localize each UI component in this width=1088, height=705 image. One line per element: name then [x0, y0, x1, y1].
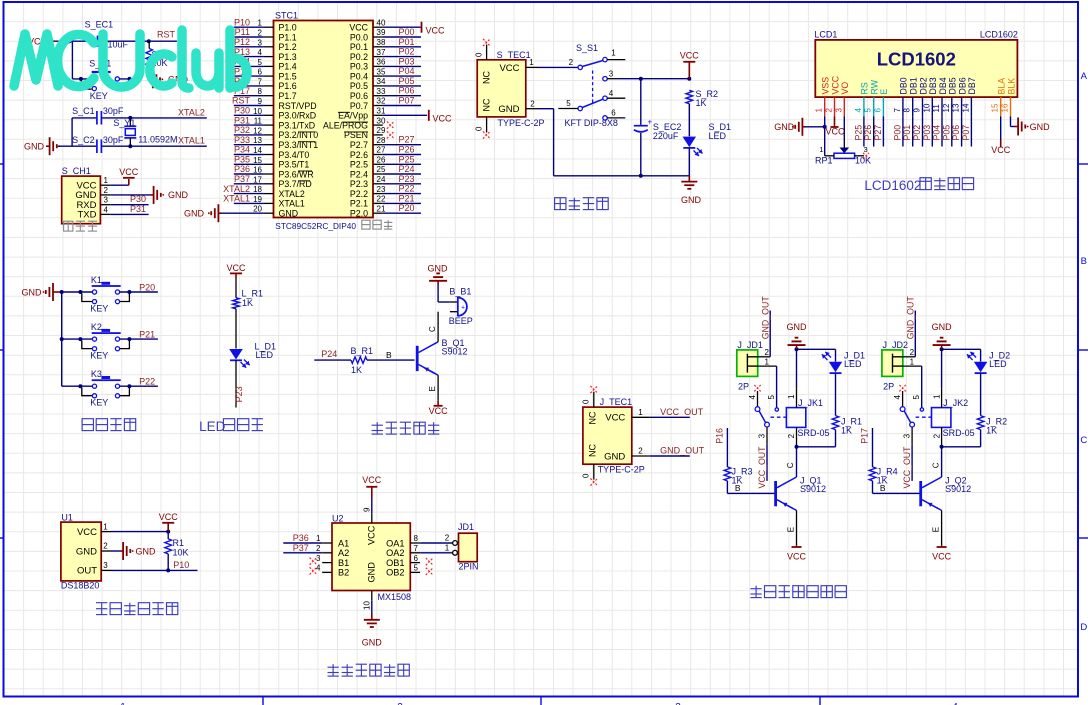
- svg-text:8: 8: [258, 87, 263, 96]
- svg-text:P1.6: P1.6: [279, 81, 297, 91]
- svg-text:S_C2: S_C2: [72, 135, 95, 145]
- svg-text:19: 19: [253, 195, 262, 204]
- svg-text:VCC_OUT: VCC_OUT: [902, 446, 912, 489]
- svg-text:P0.6: P0.6: [350, 91, 368, 101]
- svg-text:P21: P21: [139, 330, 155, 340]
- svg-text:P37: P37: [293, 543, 309, 553]
- svg-text:P05: P05: [399, 76, 415, 86]
- svg-text:P20: P20: [139, 282, 155, 292]
- svg-text:B: B: [735, 483, 741, 493]
- svg-text:6: 6: [414, 554, 419, 563]
- svg-text:16: 16: [253, 166, 262, 175]
- svg-text:+: +: [648, 118, 653, 127]
- svg-text:220uF: 220uF: [653, 131, 679, 141]
- svg-text:E: E: [787, 527, 796, 532]
- svg-text:P26: P26: [863, 125, 873, 141]
- svg-text:S_C1: S_C1: [72, 106, 95, 116]
- svg-text:DB3: DB3: [928, 77, 938, 94]
- svg-text:P27: P27: [399, 135, 415, 145]
- svg-text:P25: P25: [399, 154, 415, 164]
- svg-text:P07: P07: [961, 125, 971, 141]
- svg-text:2: 2: [445, 534, 450, 543]
- svg-text:KEY: KEY: [90, 91, 108, 101]
- power flag VCC (LCD pin2): [825, 116, 845, 136]
- svg-text:7: 7: [258, 77, 263, 86]
- svg-text:J_JD1: J_JD1: [737, 340, 763, 350]
- svg-text:P03: P03: [922, 125, 932, 141]
- svg-text:20: 20: [253, 205, 262, 214]
- svg-text:P31: P31: [130, 204, 146, 214]
- relay J_JK1 SRD-05: [786, 349, 829, 449]
- svg-text:11: 11: [932, 104, 941, 113]
- relay switch contact: [748, 385, 787, 481]
- ground (key circuit): [22, 283, 62, 301]
- LCD1 LCD1602 module: [814, 30, 1018, 98]
- svg-text:U2: U2: [332, 514, 344, 524]
- svg-text:7: 7: [893, 108, 902, 113]
- wire XTAL2: [101, 116, 206, 120]
- svg-text:VCC: VCC: [825, 127, 845, 137]
- transistor J_Q2 S9012: [919, 447, 971, 546]
- svg-text:S_TEC1: S_TEC1: [497, 50, 531, 60]
- svg-text:P2.0: P2.0: [350, 209, 368, 219]
- svg-text:P24: P24: [321, 349, 337, 359]
- relay J_JK2 SRD-05: [932, 349, 975, 449]
- svg-text:OA2: OA2: [386, 548, 404, 558]
- svg-text:VCC: VCC: [367, 525, 377, 545]
- wire VCC to RST node: [55, 40, 177, 42]
- svg-text:3: 3: [903, 433, 912, 438]
- svg-text:13: 13: [952, 103, 961, 112]
- power flag VCC (DS18B20): [111, 512, 178, 534]
- svg-text:14: 14: [253, 146, 262, 155]
- svg-text:P33: P33: [234, 135, 250, 145]
- svg-text:LED: LED: [989, 359, 1007, 369]
- svg-text:KFT DIP-8X8: KFT DIP-8X8: [565, 118, 618, 128]
- svg-text:2: 2: [932, 433, 941, 438]
- svg-text:7: 7: [414, 544, 419, 553]
- overlines on pin names: [298, 112, 368, 181]
- ground (crystal): [24, 137, 60, 155]
- switch S_S1 KFT DIP-8X8: [558, 43, 625, 128]
- svg-text:C: C: [931, 462, 940, 468]
- svg-text:2: 2: [910, 348, 915, 357]
- svg-text:E: E: [879, 89, 889, 95]
- svg-text:LED: LED: [199, 419, 226, 434]
- STC1 right net wires P00-P07: [383, 27, 421, 106]
- svg-text:31: 31: [377, 107, 386, 116]
- svg-text:P25: P25: [853, 125, 863, 141]
- capacitor S_C1 30pF: [72, 106, 124, 125]
- svg-text:1: 1: [819, 145, 823, 154]
- svg-text:OA1: OA1: [386, 538, 404, 548]
- net label XTAL2: [178, 108, 205, 118]
- svg-text:C: C: [428, 326, 437, 332]
- svg-text:P0.1: P0.1: [350, 42, 368, 52]
- title DC motor circuit: [328, 664, 410, 676]
- MCU U STC1 STC89C52RC_DIP40: [274, 11, 393, 232]
- svg-text:JD1: JD1: [458, 522, 474, 532]
- svg-text:5: 5: [566, 99, 571, 108]
- svg-text:B2: B2: [338, 568, 349, 578]
- svg-text:VCC: VCC: [932, 552, 952, 562]
- svg-text:VCC_OUT: VCC_OUT: [660, 407, 704, 417]
- potentiometer RP1 10K: [815, 116, 871, 165]
- svg-text:P16: P16: [715, 428, 725, 444]
- svg-text:5: 5: [767, 395, 776, 400]
- svg-text:10: 10: [922, 103, 931, 112]
- wire J_JD1 pin1 to switch pin5: [758, 358, 777, 408]
- svg-text:TYPE-C-2P: TYPE-C-2P: [498, 118, 545, 128]
- svg-text:S9012: S9012: [442, 346, 468, 356]
- LCD data/control wires: [853, 116, 971, 146]
- svg-text:RST: RST: [157, 29, 176, 39]
- svg-text:GND: GND: [76, 546, 97, 557]
- svg-text:XTAL2: XTAL2: [279, 189, 305, 199]
- svg-text:S_EC1: S_EC1: [85, 20, 114, 30]
- net label VCC_OUT (vertical): [902, 446, 912, 489]
- svg-text:14: 14: [961, 103, 970, 112]
- svg-text:1K: 1K: [351, 365, 362, 375]
- svg-text:P23: P23: [399, 174, 415, 184]
- svg-text:38: 38: [377, 38, 386, 47]
- ground (S_CH1 pin2): [110, 186, 188, 204]
- svg-text:SRD-05: SRD-05: [943, 428, 975, 438]
- resistor J_R2 1K: [942, 373, 1008, 447]
- svg-text:KEY: KEY: [90, 398, 108, 408]
- net label P24: [321, 349, 337, 359]
- push button K3: [62, 369, 158, 408]
- net label VCC_OUT (vertical): [757, 446, 767, 489]
- svg-text:P23: P23: [234, 386, 244, 402]
- net label P22: [139, 377, 155, 387]
- svg-text:XTAL1: XTAL1: [223, 194, 250, 204]
- wire OUT + net label P10: [111, 560, 198, 572]
- svg-text:26: 26: [377, 156, 386, 165]
- svg-text:25: 25: [377, 165, 386, 174]
- title power circuit: [555, 198, 609, 210]
- push button K1: [60, 275, 158, 314]
- svg-text:B: B: [1081, 256, 1087, 267]
- svg-text:10: 10: [363, 601, 372, 610]
- svg-text:STC1: STC1: [275, 11, 298, 21]
- svg-text:VCC: VCC: [429, 406, 449, 416]
- wire J_JD1 pin2 to GND_OUT: [758, 311, 771, 358]
- svg-text:36: 36: [377, 58, 386, 67]
- svg-text:2: 2: [825, 108, 834, 113]
- ground (relay top): [787, 322, 808, 351]
- svg-text:P35: P35: [234, 155, 250, 165]
- svg-text:10K: 10K: [855, 156, 871, 166]
- resistor S_R1 10K: [146, 39, 174, 79]
- svg-text:2P: 2P: [738, 382, 749, 392]
- wire + net label GND_OUT: [632, 446, 705, 456]
- svg-text:K1: K1: [91, 275, 102, 285]
- svg-text:GND: GND: [367, 562, 377, 583]
- power flag VCC (reset circuit): [28, 36, 55, 47]
- svg-text:GND: GND: [1030, 122, 1051, 132]
- connector J_JD1 2P: [737, 340, 763, 392]
- resistor R1 10K: [165, 532, 189, 571]
- svg-text:B: B: [386, 350, 392, 360]
- no-connect X pins 30,29: [387, 122, 394, 139]
- svg-text:P34: P34: [234, 145, 250, 155]
- ground (reset): [149, 70, 188, 88]
- power flag VCC (MX1508 pin9): [362, 475, 382, 523]
- svg-text:P0.2: P0.2: [350, 52, 368, 62]
- svg-text:XTAL2: XTAL2: [178, 108, 205, 118]
- svg-text:OB2: OB2: [386, 568, 404, 578]
- power flag VCC (LED circuit): [226, 263, 246, 278]
- svg-text:DB7: DB7: [967, 77, 977, 94]
- svg-text:3: 3: [864, 145, 868, 154]
- svg-text:K3: K3: [91, 369, 102, 379]
- svg-text:P03: P03: [399, 56, 415, 66]
- svg-text:1: 1: [910, 358, 915, 367]
- svg-text:3: 3: [258, 38, 263, 47]
- svg-text:RS: RS: [860, 82, 870, 94]
- svg-text:B_R1: B_R1: [351, 346, 374, 356]
- svg-text:XTAL2: XTAL2: [223, 184, 250, 194]
- svg-text:OUT: OUT: [77, 566, 97, 577]
- svg-text:3: 3: [757, 433, 766, 438]
- svg-text:P27: P27: [873, 125, 883, 141]
- capacitor S_C2 30pF: [72, 135, 124, 153]
- svg-text:P3.1/TxD: P3.1/TxD: [279, 120, 316, 130]
- svg-text:P37: P37: [234, 174, 250, 184]
- svg-text:B1: B1: [338, 558, 349, 568]
- svg-text:0: 0: [582, 399, 591, 404]
- svg-text:P06: P06: [951, 125, 961, 141]
- svg-text:P00: P00: [892, 125, 902, 141]
- svg-text:4: 4: [609, 89, 614, 98]
- svg-text:15: 15: [991, 103, 1000, 112]
- net label GND_OUT (vertical): [905, 296, 915, 340]
- svg-text:LED: LED: [256, 350, 274, 360]
- svg-text:B: B: [880, 483, 886, 493]
- svg-text:BEEP: BEEP: [449, 316, 473, 326]
- svg-text:1: 1: [258, 19, 263, 28]
- svg-text:VCC: VCC: [787, 552, 807, 562]
- svg-text:GND: GND: [136, 546, 157, 556]
- svg-text:2PIN: 2PIN: [459, 561, 479, 571]
- svg-text:1: 1: [529, 58, 534, 67]
- MCUclub watermark: [14, 30, 247, 88]
- svg-text:DB1: DB1: [909, 77, 919, 94]
- svg-text:J_JD2: J_JD2: [883, 340, 909, 350]
- wire J_JD2 pin1 to switch pin5: [903, 358, 922, 408]
- net label P21: [139, 330, 155, 340]
- svg-text:LED: LED: [844, 359, 862, 369]
- transistor J_Q1 S9012: [774, 447, 826, 546]
- net label GND_OUT (vertical): [760, 296, 770, 340]
- svg-text:XTAL1: XTAL1: [178, 135, 205, 145]
- LED J_D1: [797, 349, 866, 373]
- svg-text:J_JK2: J_JK2: [943, 398, 968, 408]
- ground (DS18B20 pin2): [111, 542, 156, 560]
- svg-text:1: 1: [932, 394, 941, 399]
- resistor J_R1 1K: [797, 373, 863, 447]
- svg-text:DB6: DB6: [957, 77, 967, 94]
- svg-text:5: 5: [414, 564, 419, 573]
- svg-text:S_S1: S_S1: [576, 43, 598, 53]
- svg-text:DS18B20: DS18B20: [61, 581, 100, 591]
- power flag VCC (relay transistor): [932, 545, 952, 561]
- svg-text:P31: P31: [234, 115, 250, 125]
- svg-text:1K: 1K: [986, 425, 997, 435]
- svg-text:NC: NC: [482, 71, 492, 84]
- svg-text:30: 30: [377, 116, 386, 125]
- svg-text:RST: RST: [232, 96, 251, 106]
- svg-text:GND_OUT: GND_OUT: [760, 296, 770, 340]
- svg-text:P30: P30: [130, 194, 146, 204]
- wire J_JD2 pin2 to GND_OUT: [903, 311, 916, 358]
- svg-text:9: 9: [258, 97, 263, 106]
- svg-text:P10: P10: [234, 17, 250, 27]
- wire S_TEC1 pin2 GND rail: [526, 99, 690, 178]
- svg-text:P1.5: P1.5: [279, 71, 297, 81]
- driver U2 MX1508: [316, 514, 420, 603]
- ground (MX1508 pin10): [362, 591, 383, 648]
- svg-text:LED: LED: [709, 131, 727, 141]
- svg-text:P2.6: P2.6: [350, 150, 368, 160]
- LED L_D1: [229, 342, 276, 408]
- buzzer B_B1 BEEP: [438, 285, 473, 326]
- svg-text:4: 4: [104, 205, 109, 214]
- wire S_TEC1 pin1 to switch: [526, 58, 578, 67]
- svg-text:1: 1: [445, 543, 450, 552]
- svg-text:5: 5: [912, 395, 921, 400]
- svg-text:P1.0: P1.0: [279, 23, 297, 33]
- J_TEC1 NC pin bottom with X: [582, 464, 598, 485]
- svg-text:29: 29: [377, 126, 386, 135]
- svg-text:11.0592M: 11.0592M: [138, 135, 177, 145]
- svg-text:P26: P26: [399, 145, 415, 155]
- svg-text:VCC: VCC: [433, 114, 453, 124]
- svg-text:GND: GND: [184, 209, 205, 219]
- svg-text:27: 27: [377, 146, 386, 155]
- svg-text:GND: GND: [22, 288, 43, 298]
- S_TEC1 NC pin top with X: [475, 39, 491, 60]
- svg-text:5: 5: [864, 108, 873, 113]
- svg-text:3: 3: [104, 196, 109, 205]
- svg-text:D: D: [1080, 622, 1087, 633]
- svg-text:VCC_OUT: VCC_OUT: [757, 446, 767, 489]
- resistor L_R1 1K: [233, 278, 263, 349]
- svg-text:P0.7: P0.7: [350, 101, 368, 111]
- svg-text:VCC: VCC: [680, 51, 700, 61]
- svg-text:30pF: 30pF: [103, 135, 124, 145]
- svg-text:MX1508: MX1508: [378, 592, 412, 602]
- svg-text:P36: P36: [234, 164, 250, 174]
- net label RST: [157, 29, 176, 39]
- svg-text:P1.1: P1.1: [279, 32, 297, 42]
- svg-text:VCC: VCC: [426, 26, 446, 36]
- no-connect X pins OB1 OB2: [426, 558, 433, 575]
- title relay control circuit: [750, 586, 846, 598]
- svg-text:P01: P01: [902, 125, 912, 141]
- svg-text:P3.5/T1: P3.5/T1: [279, 160, 310, 170]
- svg-text:LCD1: LCD1: [814, 30, 837, 40]
- sensor U1 DS18B20: [61, 513, 111, 591]
- svg-text:8: 8: [903, 108, 912, 113]
- svg-text:GND: GND: [279, 209, 299, 219]
- svg-text:34: 34: [377, 77, 386, 86]
- svg-text:3: 3: [103, 561, 108, 570]
- title key circuit: [82, 419, 136, 431]
- svg-text:GND: GND: [604, 451, 625, 462]
- svg-text:2: 2: [316, 544, 321, 553]
- net label P23: [234, 386, 244, 402]
- svg-text:GND_OUT: GND_OUT: [660, 446, 705, 456]
- svg-text:6: 6: [258, 68, 263, 77]
- svg-text:3: 3: [609, 69, 614, 78]
- svg-text:TXD: TXD: [78, 210, 97, 221]
- ground (LCD VSS): [774, 116, 826, 136]
- connector S_TEC1 TYPE-C-2P: [477, 50, 544, 128]
- wire + net label P31: [110, 204, 148, 215]
- svg-text:6: 6: [873, 108, 882, 113]
- svg-text:C: C: [1080, 435, 1087, 446]
- svg-text:10uF: 10uF: [108, 40, 129, 50]
- svg-text:GND: GND: [428, 263, 449, 273]
- svg-text:1: 1: [765, 358, 770, 367]
- svg-text:KEY: KEY: [90, 351, 108, 361]
- svg-text:A1: A1: [338, 538, 349, 548]
- power flag VCC (STC1 pin40): [383, 22, 445, 36]
- svg-text:2: 2: [530, 99, 535, 108]
- svg-text:VCC: VCC: [362, 475, 382, 485]
- svg-text:3: 3: [316, 554, 321, 563]
- svg-text:P07: P07: [399, 96, 415, 106]
- svg-text:4: 4: [316, 564, 321, 573]
- svg-text:VCC: VCC: [119, 167, 139, 177]
- svg-text:P20: P20: [399, 203, 415, 213]
- svg-text:40: 40: [377, 18, 386, 27]
- svg-text:GND: GND: [24, 142, 45, 152]
- svg-text:2: 2: [258, 29, 263, 38]
- svg-text:0: 0: [582, 473, 591, 478]
- title LCD1602 display module: [864, 178, 973, 193]
- svg-text:GND: GND: [774, 122, 795, 132]
- svg-text:KEY: KEY: [90, 304, 108, 314]
- junction arrow on reset wire: [69, 39, 75, 44]
- capacitor S_EC2 220uF: [634, 79, 682, 176]
- svg-text:P0.4: P0.4: [350, 71, 368, 81]
- svg-text:P02: P02: [912, 125, 922, 141]
- svg-text:S9012: S9012: [945, 484, 971, 494]
- svg-text:6: 6: [611, 109, 616, 118]
- svg-text:DB0: DB0: [899, 77, 909, 94]
- power flag VCC (power circuit): [680, 51, 700, 79]
- svg-text:16: 16: [1001, 103, 1010, 112]
- svg-text:P04: P04: [932, 125, 942, 141]
- svg-text:XTAL1: XTAL1: [279, 199, 305, 209]
- svg-text:J_JK1: J_JK1: [798, 398, 823, 408]
- svg-text:SRD-05: SRD-05: [798, 428, 830, 438]
- STC1 left pins 1-20: [253, 19, 318, 219]
- svg-text:P1.4: P1.4: [279, 62, 297, 72]
- title LED circuit: [199, 419, 263, 434]
- svg-text:OB1: OB1: [386, 558, 404, 568]
- svg-text:33: 33: [377, 87, 386, 96]
- title temperature module: [96, 603, 178, 615]
- power flag VCC (buzzer): [429, 401, 449, 416]
- svg-text:GND: GND: [362, 638, 383, 648]
- wire switch pin3 to VCC node: [617, 77, 691, 81]
- svg-text:32: 32: [377, 97, 386, 106]
- svg-text:23: 23: [377, 185, 386, 194]
